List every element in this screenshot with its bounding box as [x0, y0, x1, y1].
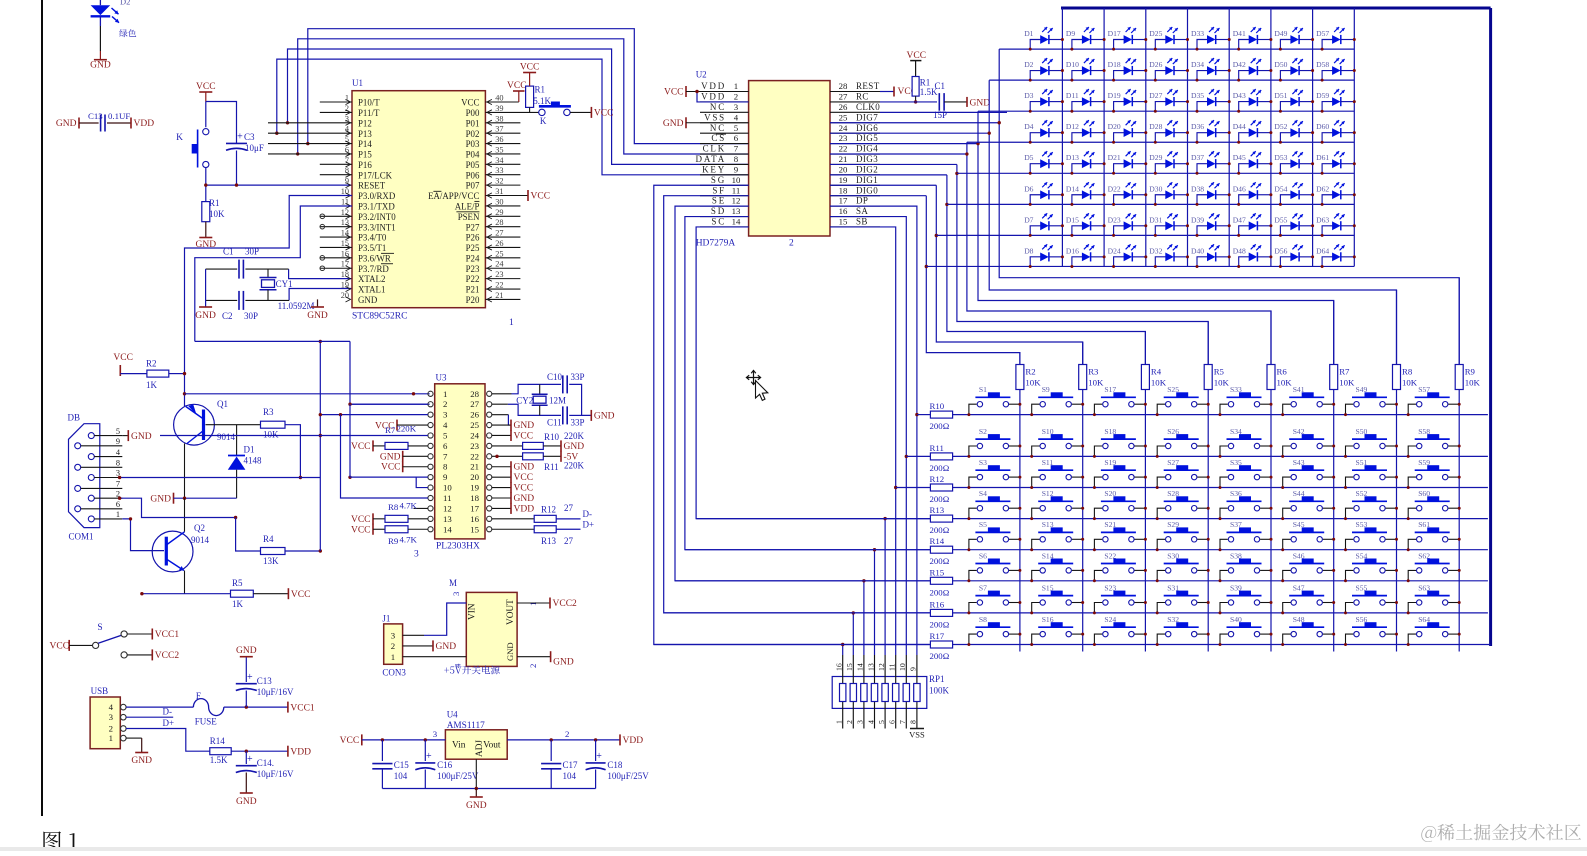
svg-text:R5: R5 — [1214, 367, 1225, 377]
capacitor C10 33P — [562, 375, 564, 393]
svg-text:17: 17 — [341, 260, 349, 269]
svg-text:SC: SC — [711, 217, 726, 227]
power VCC for U3 pin24 — [492, 434, 511, 436]
resistor R11 200 — [930, 453, 952, 460]
svg-text:10: 10 — [732, 175, 741, 185]
wire reset node — [205, 168, 207, 202]
svg-text:27: 27 — [564, 536, 574, 546]
resistor R1 10K reset pulldown — [202, 202, 210, 222]
svg-text:D15: D15 — [1066, 215, 1079, 224]
U3 pin 8 — [428, 464, 433, 469]
svg-text:18: 18 — [341, 270, 349, 279]
svg-text:13: 13 — [341, 218, 349, 227]
svg-text:D58: D58 — [1316, 60, 1329, 69]
svg-text:R8: R8 — [1402, 367, 1413, 377]
fuse F — [193, 699, 223, 716]
DB9 pin circle right 3 — [88, 495, 94, 501]
svg-text:S9: S9 — [1042, 385, 1050, 394]
svg-text:AMS1117: AMS1117 — [447, 721, 485, 731]
diode D1 4148 — [236, 425, 238, 456]
svg-text:S1: S1 — [979, 385, 987, 394]
ground for U3 pin18 — [492, 497, 511, 499]
svg-text:P15: P15 — [358, 150, 372, 160]
svg-text:5: 5 — [116, 427, 120, 436]
svg-text:25: 25 — [495, 249, 503, 258]
svg-text:D19: D19 — [1108, 91, 1121, 100]
svg-text:D23: D23 — [1108, 215, 1121, 224]
svg-text:R2: R2 — [1025, 367, 1035, 377]
svg-text:4: 4 — [734, 112, 739, 122]
svg-text:P3.4/T0: P3.4/T0 — [358, 233, 387, 243]
svg-text:D4: D4 — [1024, 122, 1033, 131]
svg-text:GND: GND — [380, 452, 401, 462]
svg-text:D30: D30 — [1149, 184, 1162, 193]
svg-text:P3.5/T1: P3.5/T1 — [358, 243, 386, 253]
wire CLK0 stub — [880, 111, 1007, 113]
wire USB pin1 to GND — [126, 737, 142, 739]
wire key row 4 — [696, 518, 930, 520]
svg-text:P14: P14 — [358, 139, 372, 149]
resistor R7 220K — [372, 440, 374, 451]
svg-text:D52: D52 — [1274, 122, 1287, 131]
svg-text:VSS: VSS — [909, 730, 925, 740]
svg-text:33P: 33P — [571, 418, 585, 428]
svg-text:P3.0/RXD: P3.0/RXD — [358, 191, 396, 201]
svg-text:1: 1 — [509, 318, 514, 328]
svg-text:5: 5 — [443, 430, 448, 440]
svg-text:U1: U1 — [352, 78, 363, 88]
wire J1 pin3 to VIN — [403, 634, 424, 636]
svg-text:D54: D54 — [1274, 184, 1287, 193]
RP1 element 7 — [905, 655, 907, 729]
ground for crystal caps C10 C11 — [590, 410, 592, 421]
capacitor C18 100uF/25V — [595, 740, 597, 761]
svg-text:M: M — [449, 578, 457, 588]
capacitor C14 10uF/16V — [245, 751, 247, 764]
svg-text:VOUT: VOUT — [506, 599, 516, 625]
svg-text:8: 8 — [116, 459, 120, 468]
svg-text:7: 7 — [898, 720, 907, 724]
U3 pin 22 — [487, 454, 492, 459]
svg-text:DP: DP — [856, 196, 868, 206]
svg-text:C2: C2 — [222, 311, 233, 321]
wire DB9 pin1 to Q2 base — [122, 519, 164, 551]
svg-text:P03: P03 — [466, 139, 480, 149]
svg-text:VCC: VCC — [664, 88, 684, 98]
wire LED matrix column 6 — [1270, 8, 1272, 267]
ground for USB pin1 — [135, 752, 148, 754]
svg-text:24: 24 — [839, 123, 848, 133]
resistor R4 13K — [261, 548, 286, 555]
svg-text:VCC2: VCC2 — [155, 651, 180, 661]
RP1 element 2 — [852, 613, 854, 655]
svg-text:P3.2/INT0: P3.2/INT0 — [358, 212, 396, 222]
resistor R11 220K on U3 pin22 — [492, 455, 523, 457]
svg-text:C16: C16 — [437, 760, 453, 770]
svg-text:VCC: VCC — [381, 463, 401, 473]
resistor R5 1K — [231, 590, 254, 597]
label 绿色 for D2 — [119, 29, 127, 37]
svg-text:HD7279A: HD7279A — [696, 239, 736, 249]
svg-text:GND: GND — [594, 412, 615, 422]
svg-text:C13: C13 — [88, 111, 103, 121]
wire to U3 pin1 — [185, 393, 430, 395]
svg-text:RC: RC — [856, 92, 869, 102]
svg-text:P11/T: P11/T — [358, 108, 380, 118]
wire U2 DIG3 net to key column 4 — [830, 163, 957, 165]
resistor R8 10K pullup — [1393, 365, 1401, 390]
svg-text:S8: S8 — [979, 615, 987, 624]
svg-text:D36: D36 — [1191, 122, 1204, 131]
svg-text:25: 25 — [470, 420, 479, 430]
svg-text:S5: S5 — [979, 520, 987, 529]
svg-text:DB: DB — [68, 413, 81, 423]
svg-text:R1: R1 — [535, 85, 546, 95]
svg-text:R16: R16 — [930, 599, 945, 609]
resistor network RP1 100K body — [832, 677, 927, 709]
svg-text:P26: P26 — [466, 233, 480, 243]
svg-text:P00: P00 — [466, 108, 480, 118]
svg-text:D17: D17 — [1108, 29, 1121, 38]
svg-text:8: 8 — [734, 154, 739, 164]
U3 pin 16 — [487, 516, 492, 521]
ground for U1 pin20 — [317, 299, 319, 307]
wire LED matrix row 3 — [978, 110, 1354, 112]
svg-text:22: 22 — [470, 451, 479, 461]
svg-text:CY2: CY2 — [516, 396, 533, 406]
svg-text:P02: P02 — [466, 129, 480, 139]
svg-text:10: 10 — [898, 663, 907, 671]
svg-text:GND: GND — [663, 119, 684, 129]
capacitor C1 15P — [938, 93, 940, 111]
svg-text:D1: D1 — [244, 445, 255, 455]
svg-text:GND: GND — [514, 494, 535, 504]
wire U2 DIG1 net to key column 2 — [830, 184, 936, 186]
svg-text:1K: 1K — [232, 599, 244, 609]
svg-text:20: 20 — [839, 164, 848, 174]
wire U2 DIG2 net to key column 3 — [830, 174, 947, 176]
resistor R9 4.7K on U3 pin14 — [372, 524, 374, 535]
ground for C13 — [240, 656, 253, 658]
wire TXD trunk horizontal — [195, 340, 350, 342]
svg-text:D35: D35 — [1191, 91, 1204, 100]
svg-text:D55: D55 — [1274, 215, 1287, 224]
wire U2 SC to key row R13 — [696, 227, 930, 519]
watermark — [1421, 826, 1436, 842]
svg-text:9: 9 — [116, 437, 120, 446]
svg-text:VCC: VCC — [291, 590, 311, 600]
svg-text:D21: D21 — [1108, 153, 1121, 162]
svg-text:D-: D- — [163, 707, 173, 717]
svg-text:REST: REST — [856, 81, 880, 91]
svg-text:4: 4 — [866, 720, 875, 724]
capacitor C16 100uF/25V — [424, 740, 426, 761]
svg-text:19: 19 — [341, 281, 349, 290]
svg-text:1: 1 — [116, 510, 120, 519]
svg-text:R9: R9 — [388, 536, 399, 546]
svg-text:VDD: VDD — [514, 504, 535, 514]
svg-text:SE: SE — [712, 196, 726, 206]
svg-text:D49: D49 — [1274, 29, 1287, 38]
svg-text:11: 11 — [888, 663, 897, 671]
wire P14 to U2 CS — [308, 29, 749, 144]
svg-text:D53: D53 — [1274, 153, 1287, 162]
svg-text:GND: GND — [564, 442, 585, 452]
svg-text:VCC: VCC — [514, 473, 534, 483]
power VCC2 from switch — [151, 649, 153, 660]
svg-text:15: 15 — [470, 524, 479, 534]
svg-text:15: 15 — [839, 217, 848, 227]
wire P15 to U2 CLK — [298, 39, 749, 154]
svg-text:4: 4 — [109, 702, 114, 712]
wire LED matrix row 4 — [967, 141, 1354, 143]
power VCC1 from switch — [151, 629, 153, 640]
svg-text:GND: GND — [90, 61, 111, 71]
RP1 element 3 — [863, 581, 865, 655]
svg-text:P3.7/RD: P3.7/RD — [358, 264, 389, 274]
svg-text:3: 3 — [734, 102, 739, 112]
wire P3.0 staircase to Q1 — [185, 196, 353, 407]
svg-text:GND: GND — [131, 432, 152, 442]
ground for U4 — [475, 789, 477, 798]
U3 pin 19 — [487, 485, 492, 490]
svg-text:D41: D41 — [1233, 29, 1246, 38]
svg-text:12: 12 — [732, 196, 741, 206]
DB9 pin circle left 0 — [75, 443, 81, 449]
svg-text:3: 3 — [109, 712, 114, 722]
svg-text:33: 33 — [495, 166, 503, 175]
svg-text:1: 1 — [835, 720, 844, 724]
svg-text:10K: 10K — [1151, 378, 1167, 388]
U3 pin 1 — [428, 391, 433, 396]
svg-text:GND: GND — [970, 98, 991, 108]
wire XTAL1 net — [289, 289, 352, 301]
wire DB9 pin3 RS232 line — [120, 477, 301, 479]
svg-text:2: 2 — [845, 720, 854, 724]
svg-text:R14: R14 — [930, 536, 945, 546]
svg-text:R7: R7 — [385, 425, 396, 435]
svg-text:10: 10 — [443, 483, 452, 493]
svg-text:R13: R13 — [541, 536, 557, 546]
ground VSS for RP1 — [910, 728, 924, 730]
svg-text:+: + — [247, 672, 253, 683]
svg-text:DATA: DATA — [696, 154, 726, 164]
wire U2 SD to key row R14 — [685, 217, 931, 550]
svg-text:36: 36 — [495, 135, 503, 144]
wire U2 DIG6 net to key column 7 — [830, 132, 989, 134]
svg-text:15: 15 — [845, 663, 854, 671]
svg-text:C11: C11 — [547, 418, 562, 428]
wire U4 output — [507, 739, 620, 741]
svg-text:S7: S7 — [979, 583, 987, 592]
wire LED matrix row 2 — [989, 79, 1354, 81]
svg-text:D10: D10 — [1066, 60, 1079, 69]
svg-text:10K: 10K — [1465, 378, 1481, 388]
wire U2 DIG4 net to key column 5 — [830, 153, 967, 155]
svg-text:R5: R5 — [232, 578, 243, 588]
resistor R14 1.5K — [210, 748, 231, 755]
svg-text:9: 9 — [734, 164, 739, 174]
U3 pin 9 — [428, 475, 433, 480]
wire key row 1 — [917, 414, 931, 416]
svg-text:21: 21 — [495, 291, 503, 300]
svg-text:40: 40 — [495, 94, 503, 103]
svg-text:1K: 1K — [146, 380, 158, 390]
svg-text:7: 7 — [116, 480, 120, 489]
svg-text:VCC2: VCC2 — [553, 599, 578, 609]
power VCC for U2 VDD — [685, 86, 687, 97]
svg-text:D34: D34 — [1191, 60, 1204, 69]
svg-text:D+: D+ — [163, 718, 175, 728]
svg-text:VCC: VCC — [351, 442, 371, 452]
connector USB body — [90, 697, 120, 749]
svg-text:200Ω: 200Ω — [930, 619, 950, 629]
U3 pin 24 — [487, 433, 492, 438]
svg-text:+: + — [247, 754, 253, 765]
svg-text:28: 28 — [495, 218, 503, 227]
svg-text:DIG3: DIG3 — [856, 154, 878, 164]
svg-text:D3: D3 — [1024, 91, 1033, 100]
svg-text:GND: GND — [236, 797, 257, 807]
svg-text:NC: NC — [710, 123, 726, 133]
wire key row 5 — [685, 549, 931, 551]
power module M body — [466, 592, 517, 666]
svg-text:12: 12 — [443, 503, 452, 513]
svg-text:VCC: VCC — [520, 63, 540, 73]
svg-text:104: 104 — [394, 771, 408, 781]
svg-text:XTAL2: XTAL2 — [358, 274, 385, 284]
svg-text:CLK0: CLK0 — [856, 102, 880, 112]
svg-text:PSEN: PSEN — [458, 212, 480, 222]
svg-text:3: 3 — [391, 631, 396, 641]
svg-text:11.0592M: 11.0592M — [278, 301, 315, 311]
svg-text:ALE/P: ALE/P — [455, 202, 480, 212]
wire DB9 pin2 to R4 — [120, 498, 236, 517]
wire VCC top bus of LED matrix — [1061, 7, 1491, 10]
ground for U3 pin7 — [402, 451, 404, 462]
U3 pin 25 — [487, 422, 492, 427]
svg-text:26: 26 — [470, 410, 479, 420]
svg-text:22: 22 — [495, 281, 503, 290]
svg-text:1: 1 — [528, 602, 538, 606]
svg-text:18: 18 — [470, 493, 479, 503]
svg-text:100μF/25V: 100μF/25V — [437, 771, 479, 781]
svg-text:D6: D6 — [1024, 184, 1033, 193]
svg-text:D56: D56 — [1274, 246, 1287, 255]
svg-text:7: 7 — [734, 144, 739, 154]
U3 pin 14 — [428, 527, 433, 532]
svg-text:P3.6/WR: P3.6/WR — [358, 253, 391, 263]
svg-text:20: 20 — [341, 291, 349, 300]
button K on P00 — [539, 109, 545, 115]
svg-text:VCC: VCC — [50, 642, 70, 652]
svg-text:19: 19 — [839, 175, 848, 185]
svg-text:4.7K: 4.7K — [400, 535, 418, 545]
U3 pin 12 — [428, 506, 433, 511]
resistor R3 10K pullup — [1079, 365, 1087, 390]
svg-text:13K: 13K — [263, 556, 279, 566]
svg-text:D50: D50 — [1274, 60, 1287, 69]
wire to U3 pin2 — [350, 341, 430, 404]
DB9 pin circle left 3 — [75, 506, 81, 512]
svg-text:D47: D47 — [1233, 215, 1246, 224]
wire key column 5 — [1270, 311, 1272, 652]
svg-text:KEY: KEY — [702, 164, 726, 174]
svg-text:D28: D28 — [1149, 122, 1162, 131]
svg-text:VCC: VCC — [514, 484, 534, 494]
svg-text:28: 28 — [470, 389, 479, 399]
svg-text:S: S — [97, 623, 102, 633]
power VCC for U1 pin31 EA — [527, 190, 529, 201]
svg-text:D29: D29 — [1149, 153, 1162, 162]
svg-text:6: 6 — [116, 500, 120, 509]
svg-text:D31: D31 — [1149, 215, 1162, 224]
svg-text:D42: D42 — [1233, 60, 1246, 69]
resistor R7 10K pullup — [1330, 365, 1338, 390]
wire key row 8 — [654, 644, 931, 646]
svg-text:D61: D61 — [1316, 153, 1329, 162]
wire U3 pin28 crystal net — [492, 393, 512, 395]
svg-text:Vin: Vin — [452, 741, 466, 751]
svg-text:VCC: VCC — [113, 353, 133, 363]
svg-text:220K: 220K — [397, 424, 417, 434]
power VCC2 from module — [517, 602, 550, 604]
power VCC for U3 pin19 — [492, 487, 511, 489]
svg-text:GND: GND — [131, 756, 152, 766]
svg-text:3: 3 — [856, 720, 865, 724]
U3 pin 27 — [487, 402, 492, 407]
U3 pin 15 — [487, 527, 492, 532]
svg-text:D33: D33 — [1191, 29, 1204, 38]
svg-text:XTAL1: XTAL1 — [358, 285, 385, 295]
svg-text:D14: D14 — [1066, 184, 1079, 193]
svg-text:PL2303HX: PL2303HX — [436, 542, 480, 552]
svg-text:5: 5 — [734, 123, 739, 133]
svg-text:VCC: VCC — [514, 431, 534, 441]
svg-text:104: 104 — [563, 771, 577, 781]
svg-text:D12: D12 — [1066, 122, 1079, 131]
wire XTAL2 net — [289, 269, 352, 279]
wire key column 4 — [1207, 322, 1209, 652]
wire U2 DIG0 net to key column 1 — [830, 195, 926, 197]
wire U3 pin3 branch to pin11 — [341, 415, 428, 498]
svg-text:VCC: VCC — [351, 525, 371, 535]
resistor R1 1.5K on RC — [910, 60, 921, 62]
power VCC for U1 pin40 — [513, 90, 525, 92]
svg-text:9014: 9014 — [191, 535, 210, 545]
svg-text:D46: D46 — [1233, 184, 1246, 193]
svg-text:R17: R17 — [930, 631, 945, 641]
power VCC for reset — [199, 91, 212, 93]
power VDD output — [287, 746, 289, 757]
svg-text:P3.1/TXD: P3.1/TXD — [358, 202, 395, 212]
capacitor C3 10uF — [226, 142, 247, 144]
svg-text:+: + — [596, 751, 602, 762]
svg-text:P05: P05 — [466, 160, 480, 170]
DB9 pin circle right 2 — [88, 475, 94, 481]
U3 pin 26 — [487, 412, 492, 417]
wire key row 3 — [896, 487, 931, 489]
svg-text:VCC: VCC — [507, 81, 527, 91]
svg-text:15P: 15P — [933, 110, 947, 120]
svg-text:10K: 10K — [1339, 378, 1355, 388]
svg-text:200Ω: 200Ω — [930, 556, 950, 566]
capacitor C17 104 — [550, 740, 552, 761]
svg-text:SA: SA — [856, 206, 868, 216]
svg-text:3: 3 — [414, 550, 419, 560]
U3 pin 6 — [428, 443, 433, 448]
power VCC for U3 pin20 — [492, 476, 511, 478]
